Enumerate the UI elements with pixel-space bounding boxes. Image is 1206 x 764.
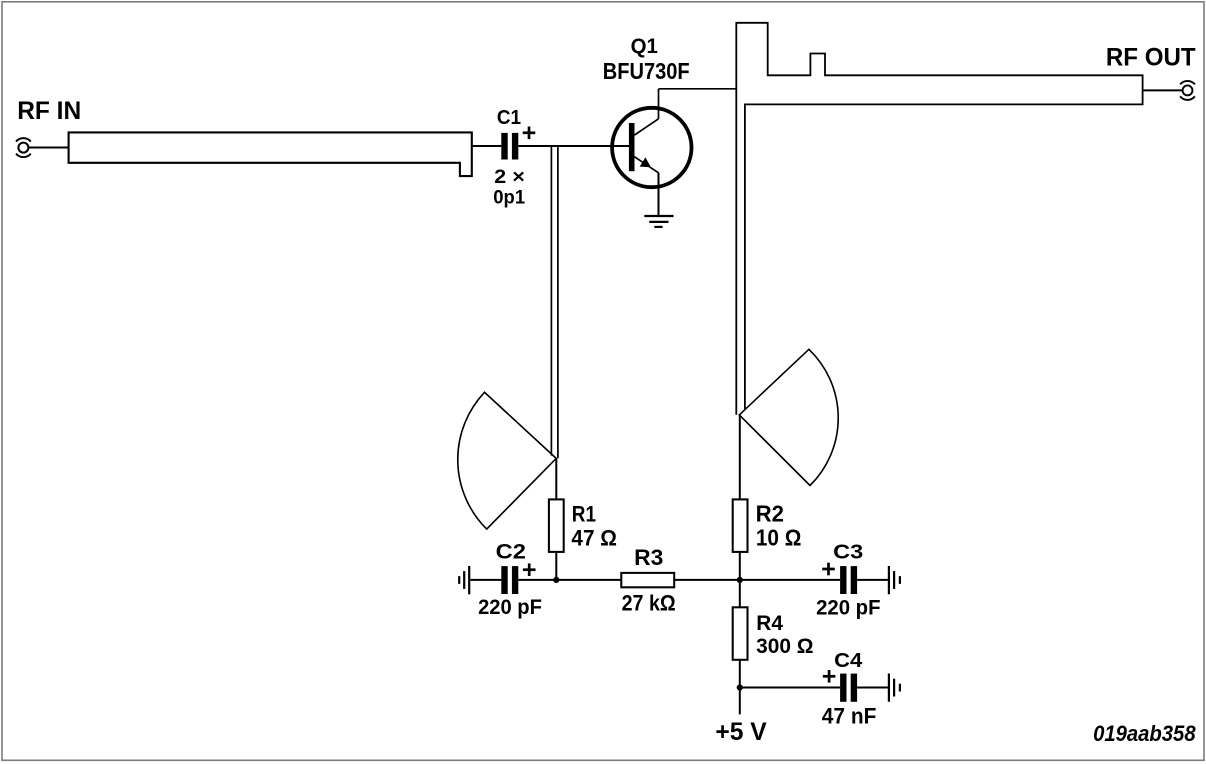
svg-text:Q1: Q1 (631, 35, 658, 58)
svg-text:R4: R4 (756, 610, 783, 635)
svg-text:R2: R2 (756, 501, 784, 527)
svg-text:C1: C1 (497, 107, 521, 129)
svg-text:+5 V: +5 V (715, 718, 767, 746)
svg-text:10 Ω: 10 Ω (756, 524, 802, 550)
svg-text:220 pF: 220 pF (816, 596, 880, 619)
svg-text:300 Ω: 300 Ω (756, 634, 813, 658)
svg-text:47 nF: 47 nF (822, 704, 877, 729)
svg-text:RF IN: RF IN (17, 97, 81, 125)
svg-text:27 kΩ: 27 kΩ (622, 591, 676, 616)
svg-text:220 pF: 220 pF (478, 596, 542, 619)
svg-text:R1: R1 (572, 502, 596, 527)
svg-text:47 Ω: 47 Ω (571, 525, 617, 550)
svg-text:2 ×: 2 × (494, 166, 525, 188)
svg-text:C3: C3 (833, 542, 863, 564)
svg-text:0p1: 0p1 (493, 187, 525, 209)
svg-text:C4: C4 (834, 650, 863, 672)
svg-text:BFU730F: BFU730F (603, 58, 690, 84)
svg-text:C2: C2 (496, 540, 526, 564)
svg-text:RF OUT: RF OUT (1106, 44, 1196, 72)
svg-text:R3: R3 (634, 545, 663, 570)
svg-text:019aab358: 019aab358 (1093, 721, 1196, 746)
